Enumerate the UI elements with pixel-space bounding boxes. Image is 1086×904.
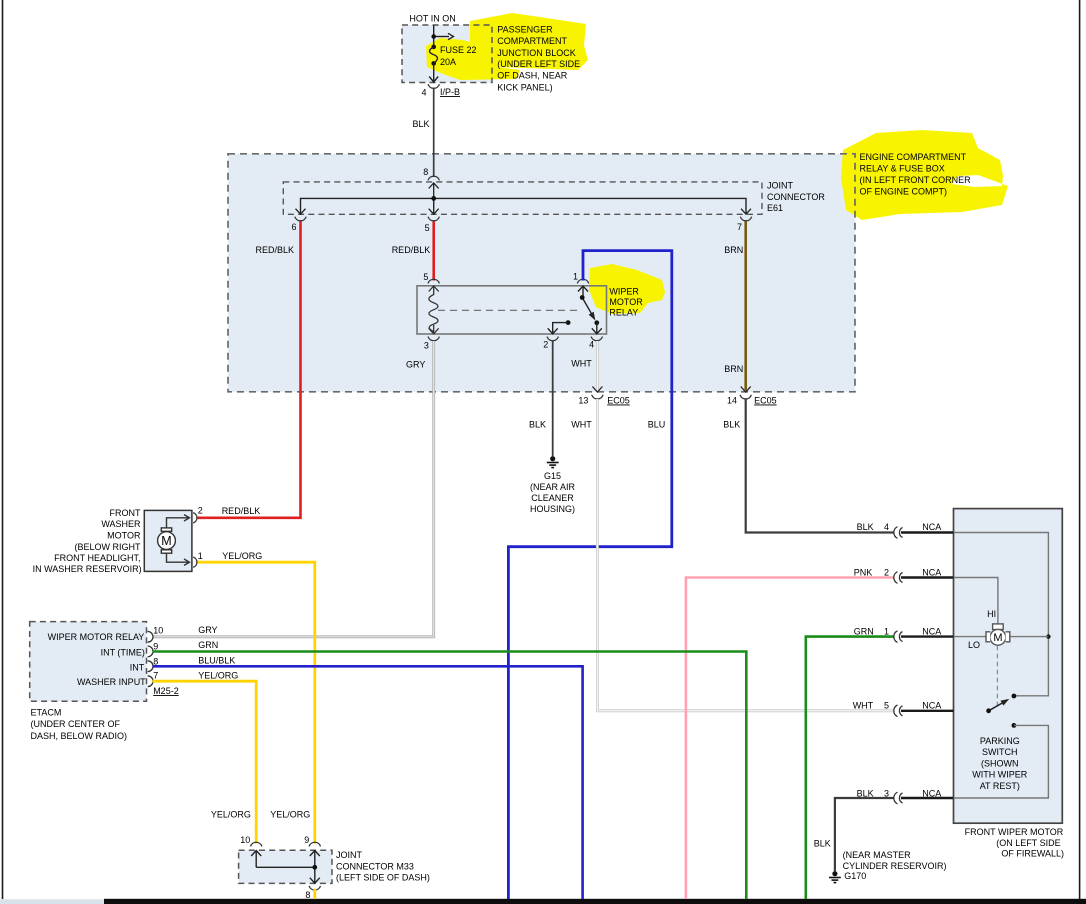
- fuse F22 symbol: [429, 45, 438, 82]
- wire BLK from relay pin 2 to ground G15: [552, 341, 554, 456]
- svg-text:4: 4: [884, 522, 889, 532]
- E61 pin 6 exit bracket: [295, 217, 306, 221]
- svg-text:HOT IN ON: HOT IN ON: [409, 13, 455, 23]
- wire GRN from ETACM pin 9 to bottom of page: [153, 652, 747, 900]
- svg-text:NCA: NCA: [922, 567, 941, 577]
- svg-text:WHT: WHT: [571, 359, 592, 369]
- svg-text:13: 13: [578, 396, 588, 406]
- E61 pin 7 exit bracket: [740, 217, 751, 221]
- svg-text:WIPER MOTOR RELAY: WIPER MOTOR RELAY: [48, 632, 145, 642]
- svg-text:FRONT HEADLIGHT,: FRONT HEADLIGHT,: [54, 553, 140, 563]
- passenger compartment junction block box fill: [402, 25, 492, 83]
- svg-text:FRONT WIPER MOTOR: FRONT WIPER MOTOR: [965, 827, 1064, 837]
- svg-text:OF ENGINE COMPT): OF ENGINE COMPT): [860, 186, 948, 196]
- wire WHT from EC05 pin 13 to front wiper motor pin 5: [597, 399, 893, 711]
- ETACM pin 10 bracket: [148, 631, 153, 642]
- svg-text:RED/BLK: RED/BLK: [222, 506, 261, 516]
- svg-text:AT REST): AT REST): [980, 781, 1020, 791]
- M33 internal bus: [251, 851, 320, 884]
- wire BLK pin 1 lead into wiper motor: [901, 635, 954, 637]
- wire BLU/BLK from ETACM pin 8 to bottom of page: [153, 666, 583, 899]
- svg-text:WASHER: WASHER: [101, 519, 141, 529]
- svg-text:10: 10: [240, 835, 250, 845]
- relay pin 2 exit bracket: [547, 337, 558, 341]
- svg-text:7: 7: [153, 671, 158, 681]
- ETACM pin 7 bracket: [148, 676, 153, 687]
- svg-text:5: 5: [884, 701, 889, 711]
- svg-text:WHT: WHT: [571, 420, 592, 430]
- relay pin 4 exit bracket: [591, 337, 602, 341]
- svg-text:(NEAR AIR: (NEAR AIR: [530, 482, 576, 492]
- wire RED/BLK from E61 pin 6 to washer motor pin 2: [198, 222, 301, 518]
- svg-text:DASH, BELOW RADIO): DASH, BELOW RADIO): [31, 731, 128, 741]
- svg-text:MOTOR: MOTOR: [107, 531, 141, 541]
- svg-text:CONNECTOR: CONNECTOR: [767, 192, 825, 202]
- wire WHT from relay pin 4 to EC05 pin 13: [596, 341, 599, 391]
- svg-text:FRONT: FRONT: [110, 508, 141, 518]
- wiper motor M symbol: [986, 624, 1010, 645]
- EC05 pin 14 bracket: [740, 395, 751, 399]
- svg-text:WITH WIPER: WITH WIPER: [972, 770, 1027, 780]
- svg-text:(SHOWN: (SHOWN: [981, 758, 1019, 768]
- svg-text:M: M: [993, 632, 1002, 644]
- E61 pin 7 exit arrow: [741, 209, 751, 215]
- wire BLK from junction block to E61 pin 8: [433, 88, 435, 177]
- E61 pin 6 exit arrow: [296, 209, 306, 215]
- svg-text:BLK: BLK: [529, 420, 546, 430]
- svg-text:GRN: GRN: [198, 640, 218, 650]
- svg-text:KICK PANEL): KICK PANEL): [497, 82, 552, 92]
- svg-text:E61: E61: [767, 203, 783, 213]
- svg-text:HI: HI: [987, 609, 996, 619]
- wire PNK from front wiper motor pin 2 to bottom of page: [686, 578, 894, 900]
- svg-text:CYLINDER RESERVOIR): CYLINDER RESERVOIR): [843, 861, 947, 871]
- wire BLK pin 3 lead into wiper motor: [901, 797, 954, 799]
- svg-text:CLEANER: CLEANER: [531, 493, 574, 503]
- svg-text:5: 5: [425, 223, 430, 233]
- svg-text:BRN: BRN: [724, 245, 743, 255]
- ETACM dashed box: [30, 622, 147, 702]
- wiper motor HI lead from pin 2: [954, 578, 998, 625]
- svg-text:2: 2: [543, 340, 548, 350]
- svg-text:9: 9: [304, 835, 309, 845]
- svg-text:PNK: PNK: [854, 567, 873, 577]
- svg-text:M25-2: M25-2: [153, 686, 179, 696]
- ETACM pin 8 bracket: [148, 661, 153, 672]
- svg-text:NCA: NCA: [922, 522, 941, 532]
- svg-text:7: 7: [737, 222, 742, 232]
- EC05 pin 13 bracket: [592, 395, 603, 399]
- svg-text:COMPARTMENT: COMPARTMENT: [497, 36, 567, 46]
- highlight: passenger compartment junction block: [426, 13, 588, 80]
- svg-text:BLK: BLK: [413, 119, 430, 129]
- wiper motor LO lead from pin 1: [954, 636, 987, 638]
- svg-text:1: 1: [884, 627, 889, 637]
- wiper motor internal junction dot: [1046, 634, 1050, 638]
- E61 pin 5 exit bracket: [428, 217, 439, 221]
- engine compartment relay &amp; fuse box dashed border: [228, 154, 855, 392]
- wire BLK pin 4 lead into wiper motor: [901, 531, 954, 533]
- joint connector M33 dashed box: [239, 850, 332, 883]
- wiper motor park linkage dashed: [996, 646, 998, 709]
- svg-text:BLU: BLU: [648, 420, 666, 430]
- M33 pin 8 exit bracket: [309, 886, 320, 890]
- ETACM pin 9 bracket: [148, 646, 153, 657]
- svg-text:MOTOR: MOTOR: [609, 297, 643, 307]
- svg-text:1: 1: [198, 551, 203, 561]
- svg-text:LO: LO: [968, 640, 980, 650]
- svg-text:OF DASH, NEAR: OF DASH, NEAR: [497, 71, 568, 81]
- svg-text:G15: G15: [544, 471, 561, 481]
- svg-text:20A: 20A: [440, 57, 456, 67]
- svg-text:(IN LEFT FRONT CORNER: (IN LEFT FRONT CORNER: [860, 175, 972, 185]
- wiper motor armature lead to junction: [1010, 636, 1048, 638]
- svg-text:5: 5: [423, 272, 428, 282]
- relay pin 5 entry bracket: [428, 279, 439, 283]
- svg-text:(ON LEFT SIDE: (ON LEFT SIDE: [996, 838, 1060, 848]
- svg-text:NCA: NCA: [922, 701, 941, 711]
- svg-text:YEL/ORG: YEL/ORG: [222, 551, 262, 561]
- svg-text:BLK: BLK: [723, 420, 740, 430]
- wire GRY from relay pin 3 to ETACM pin 10: [153, 341, 434, 637]
- parking switch park contact wire to pin 3: [954, 725, 1049, 798]
- connector pin 4 I/P-B bracket: [428, 84, 439, 88]
- svg-text:(LEFT SIDE OF DASH): (LEFT SIDE OF DASH): [336, 872, 430, 882]
- wire YEL/ORG from washer motor pin 1 to M33 pin 9: [198, 562, 315, 843]
- svg-text:(NEAR MASTER: (NEAR MASTER: [843, 850, 912, 860]
- wire BLK pin 2 lead into wiper motor: [901, 576, 954, 578]
- wire BLK from EC05 pin 14 to front wiper motor pin 4: [746, 399, 894, 533]
- svg-text:EC05: EC05: [754, 396, 777, 406]
- svg-text:SWITCH: SWITCH: [982, 747, 1018, 757]
- svg-text:4: 4: [589, 340, 594, 350]
- svg-text:2: 2: [198, 506, 203, 516]
- svg-text:WASHER INPUT: WASHER INPUT: [77, 677, 146, 687]
- wire BLU from relay pin 1 up and around to bottom left: [508, 251, 671, 899]
- svg-text:9: 9: [153, 642, 158, 652]
- washer motor pin 2 bracket: [193, 513, 197, 523]
- svg-text:IN WASHER RESERVOIR): IN WASHER RESERVOIR): [33, 564, 142, 574]
- svg-text:WHT: WHT: [853, 701, 874, 711]
- svg-text:1: 1: [573, 272, 578, 282]
- E61 bus junction dot: [431, 196, 436, 201]
- wiper motor pin 3 inline connector: [894, 792, 903, 804]
- fuse 22 feed wire and branch arrow inside junction block: [431, 25, 453, 47]
- wiper motor pin 2 inline connector: [894, 572, 903, 584]
- passenger compartment junction block dashed border: [402, 25, 492, 83]
- E61 pin 8 entry bracket: [428, 176, 439, 180]
- front washer motor box: [144, 510, 192, 571]
- svg-text:RELAY: RELAY: [609, 307, 638, 317]
- svg-text:8: 8: [153, 657, 158, 667]
- svg-text:BLU/BLK: BLU/BLK: [198, 655, 235, 665]
- highlight: wiper motor relay: [589, 264, 665, 314]
- wiper motor pin 4 inline connector: [894, 527, 903, 539]
- svg-text:YEL/ORG: YEL/ORG: [270, 810, 310, 820]
- svg-text:BLK: BLK: [857, 789, 874, 799]
- wire YEL/ORG from M33 pin 8 to bottom of page: [313, 889, 316, 899]
- wire BLK from front wiper motor pin 3 to ground G170: [835, 798, 894, 871]
- relay pin 3 exit bracket: [428, 337, 439, 341]
- wiper motor relay box: [417, 286, 607, 334]
- svg-text:14: 14: [727, 396, 737, 406]
- svg-text:RED/BLK: RED/BLK: [392, 245, 431, 255]
- svg-text:PASSENGER: PASSENGER: [497, 24, 553, 34]
- ground G170 symbol: [829, 871, 841, 882]
- wiper motor pin 5 inline connector: [894, 705, 903, 717]
- svg-text:8: 8: [423, 167, 428, 177]
- svg-text:FUSE 22: FUSE 22: [440, 45, 477, 55]
- svg-text:YEL/ORG: YEL/ORG: [211, 810, 251, 820]
- wire YEL/ORG from ETACM pin 7 to M33 pin 10: [153, 681, 257, 843]
- M33 pin 10 entry bracket: [251, 842, 262, 846]
- svg-text:(UNDER LEFT SIDE: (UNDER LEFT SIDE: [497, 59, 580, 69]
- wiper motor internal feed from pin 4: [954, 533, 1049, 696]
- svg-text:PARKING: PARKING: [980, 736, 1020, 746]
- svg-text:2: 2: [884, 567, 889, 577]
- svg-text:JUNCTION BLOCK: JUNCTION BLOCK: [497, 48, 576, 58]
- engine compartment relay &amp; fuse box fill: [228, 154, 855, 392]
- svg-text:BLK: BLK: [857, 522, 874, 532]
- svg-text:ENGINE COMPARTMENT: ENGINE COMPARTMENT: [860, 152, 967, 162]
- E61 pin 5 exit arrow: [429, 209, 439, 215]
- M33 bus junction dot: [312, 865, 317, 870]
- relay armature dashed linkage: [438, 309, 580, 311]
- parking switch common and blade: [986, 694, 1016, 728]
- svg-text:INT: INT: [130, 662, 145, 672]
- E61 pin 8 entry arrow: [429, 183, 439, 198]
- svg-text:G170: G170: [844, 871, 866, 881]
- svg-text:RELAY & FUSE BOX: RELAY & FUSE BOX: [860, 163, 945, 173]
- svg-text:HOUSING): HOUSING): [530, 504, 575, 514]
- svg-text:RED/BLK: RED/BLK: [256, 245, 295, 255]
- front washer motor internals: [158, 515, 190, 566]
- svg-text:ETACM: ETACM: [31, 707, 62, 717]
- ground G15 symbol: [547, 456, 559, 468]
- wire GRN from bottom of page to front wiper motor pin 1: [806, 637, 894, 899]
- relay pin 1 entry bracket: [577, 279, 588, 283]
- wire BLK pin 5 lead into wiper motor: [901, 710, 954, 712]
- wiper motor pin 1 inline connector: [894, 631, 903, 643]
- svg-text:EC05: EC05: [607, 396, 630, 406]
- svg-text:8: 8: [305, 890, 310, 900]
- svg-text:OF FIREWALL): OF FIREWALL): [1001, 849, 1064, 859]
- EC05 pin 14 exit arrow: [741, 387, 751, 393]
- svg-text:3: 3: [424, 340, 429, 350]
- relay switch contacts: [548, 286, 602, 334]
- svg-text:(BELOW RIGHT: (BELOW RIGHT: [74, 542, 141, 552]
- svg-text:NCA: NCA: [922, 627, 941, 637]
- svg-text:6: 6: [291, 222, 296, 232]
- svg-text:INT (TIME): INT (TIME): [101, 647, 145, 657]
- svg-text:GRY: GRY: [406, 360, 425, 370]
- svg-text:WIPER: WIPER: [609, 286, 639, 296]
- svg-text:JOINT: JOINT: [767, 181, 794, 191]
- wire RED/BLK from E61 pin 5 to relay pin 5: [432, 222, 435, 281]
- svg-text:GRY: GRY: [198, 625, 217, 635]
- relay coil between pins 5 and 3: [429, 286, 439, 334]
- E61 internal bus: [301, 198, 747, 214]
- svg-text:NCA: NCA: [922, 789, 941, 799]
- svg-text:M: M: [161, 534, 171, 548]
- front wiper motor box: [954, 509, 1063, 824]
- washer motor pin 1 bracket: [193, 557, 197, 567]
- svg-text:3: 3: [884, 789, 889, 799]
- M33 pin 9 entry bracket: [309, 842, 320, 846]
- svg-text:(UNDER CENTER OF: (UNDER CENTER OF: [31, 719, 121, 729]
- svg-text:I/P-B: I/P-B: [440, 87, 460, 97]
- svg-text:GRN: GRN: [854, 627, 874, 637]
- joint connector E61 dashed box: [283, 182, 762, 214]
- svg-text:CONNECTOR M33: CONNECTOR M33: [336, 862, 414, 872]
- svg-text:10: 10: [153, 626, 163, 636]
- EC05 pin 13 exit arrow: [592, 387, 602, 393]
- highlight: engine compartment relay and fuse box: [841, 130, 1008, 220]
- svg-text:BRN: BRN: [724, 364, 743, 374]
- svg-text:BLK: BLK: [814, 839, 831, 849]
- svg-text:YEL/ORG: YEL/ORG: [198, 671, 238, 681]
- svg-text:4: 4: [421, 87, 426, 97]
- svg-text:JOINT: JOINT: [336, 850, 363, 860]
- wire BRN from E61 pin 7 to EC05 pin 14: [744, 222, 747, 391]
